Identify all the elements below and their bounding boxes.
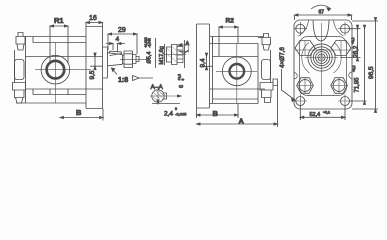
bolt hole TL xyxy=(294,22,308,36)
pump body (view 3) xyxy=(210,37,259,104)
lower hex right with port xyxy=(331,78,348,94)
right side plug top (view 3) xyxy=(258,34,271,51)
shaft nut xyxy=(124,51,133,68)
dim 29 xyxy=(108,33,137,54)
svg-text:6: 6 xyxy=(179,85,185,88)
mounting flange (view 1) xyxy=(86,27,103,109)
svg-text:1:8: 1:8 xyxy=(118,77,128,84)
upper hex right xyxy=(331,41,351,56)
svg-text:R2: R2 xyxy=(226,18,235,25)
dim B (view 1) xyxy=(60,109,103,121)
svg-text:A: A xyxy=(239,117,245,126)
flange vertical centerline xyxy=(321,23,323,95)
svg-text:9,5: 9,5 xyxy=(89,70,96,79)
section arrows A A xyxy=(178,44,189,54)
lower hex left with port xyxy=(297,78,314,94)
dim 9,5 xyxy=(90,53,103,70)
washer and stub xyxy=(133,55,140,64)
flange outline xyxy=(294,20,352,109)
inner contour xyxy=(300,37,347,96)
svg-text:9,4: 9,4 xyxy=(200,58,207,67)
svg-text:0: 0 xyxy=(181,79,185,81)
port circle view 1 xyxy=(41,55,70,84)
pump body (view 1) xyxy=(16,27,103,104)
svg-text:R1: R1 xyxy=(54,16,64,25)
svg-text:29: 29 xyxy=(118,27,126,34)
svg-text:+0,2: +0,2 xyxy=(352,65,356,72)
mounting flange plate (view 3) xyxy=(197,24,210,108)
ports horizontal centerline xyxy=(295,49,351,51)
svg-text:26,2: 26,2 xyxy=(354,45,360,57)
shaft with 1:8 taper and key xyxy=(108,51,125,66)
center rings xyxy=(305,44,338,71)
dim 67 xyxy=(295,14,352,20)
svg-text:67: 67 xyxy=(319,10,325,16)
svg-text:+0,2: +0,2 xyxy=(351,37,355,44)
dim 9,4 xyxy=(204,53,213,70)
port slab lines view3 xyxy=(210,57,266,100)
svg-text:96,5: 96,5 xyxy=(368,66,375,79)
casting circle xyxy=(302,43,341,74)
thread detail drawing xyxy=(161,40,186,68)
dim A (view 3) xyxy=(197,85,278,127)
svg-text:-0,043: -0,043 xyxy=(148,38,152,48)
svg-text:A: A xyxy=(186,41,190,47)
svg-text:+0,1: +0,1 xyxy=(323,110,330,114)
dim 4 xyxy=(106,42,125,52)
svg-text:-0,005: -0,005 xyxy=(175,112,187,117)
port circle view3 xyxy=(222,57,251,86)
svg-text:Ø5,4: Ø5,4 xyxy=(147,52,153,64)
rear cover left profile xyxy=(15,50,25,83)
centerlines view1 xyxy=(54,43,56,104)
dim R1 xyxy=(50,25,68,63)
svg-text:52,4: 52,4 xyxy=(310,112,321,118)
dim B (view 3) xyxy=(197,104,239,119)
dim R2 xyxy=(219,26,238,56)
shaft hub xyxy=(103,47,108,78)
dim 96,5 xyxy=(352,18,378,113)
right lower plug view3 xyxy=(260,79,278,103)
bolt hole BR xyxy=(338,94,352,108)
svg-text:16: 16 xyxy=(89,15,97,22)
svg-text:2,4: 2,4 xyxy=(164,111,173,118)
dim 52,4 xyxy=(300,106,345,121)
A-A key cross-section xyxy=(150,88,181,105)
dim 16 xyxy=(86,21,103,26)
svg-text:4: 4 xyxy=(116,36,120,43)
centerlines view3 xyxy=(236,44,238,104)
right profile strip view3 xyxy=(262,50,271,83)
svg-text:0: 0 xyxy=(175,107,177,111)
edge notches xyxy=(294,72,352,79)
lower valve plug left xyxy=(13,83,26,104)
upper hex left xyxy=(295,41,315,56)
shaft centerline xyxy=(120,58,146,60)
bolt hole TR xyxy=(338,22,352,36)
svg-text:B: B xyxy=(76,108,82,117)
top notch xyxy=(313,21,329,42)
thread detail rule xyxy=(155,38,157,68)
svg-text:B: B xyxy=(213,109,219,118)
relief valve plug top-left xyxy=(16,33,25,51)
svg-text:71,95: 71,95 xyxy=(355,77,361,93)
dim 71,95 xyxy=(349,25,367,104)
boss slab top lines xyxy=(210,37,265,44)
dim 26,2 xyxy=(340,25,361,61)
svg-text:4×Ø7,6: 4×Ø7,6 xyxy=(279,47,286,68)
bolt hole BL xyxy=(294,94,308,108)
top casting contour xyxy=(299,21,344,37)
